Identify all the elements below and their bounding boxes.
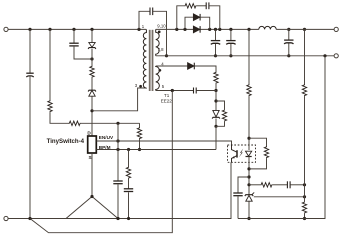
wire secondary bottom return	[238, 56, 325, 219]
transformer T1 primary winding	[143, 29, 146, 88]
wire bias diode to resistor	[194, 66, 216, 72]
resistor BP parallel	[222, 109, 226, 121]
resistor line-sense 2	[69, 121, 81, 125]
phase dot upper secondary	[158, 31, 161, 34]
node TL431 anode at return	[247, 217, 250, 220]
opto LED	[246, 151, 252, 156]
wire BP branch x118 lower	[117, 184, 119, 218]
phase dot bias winding	[159, 69, 162, 72]
wire output cap2 lower	[230, 44, 232, 56]
wire Y-cap left	[139, 11, 150, 29]
clamp TVS zener	[89, 43, 95, 48]
node return right tap	[323, 54, 326, 57]
node BP/M cap1 tap	[116, 148, 119, 151]
capacitor snubber	[205, 2, 207, 9]
node BP zener bottom	[214, 125, 217, 128]
wire bias resistor bottom	[215, 84, 217, 91]
output diode D2 (in line)	[193, 26, 199, 33]
wire bias pin5	[156, 90, 194, 92]
wire pin 3 to drain	[92, 88, 146, 111]
resistor opto parallel	[264, 146, 268, 158]
resistor snubber	[184, 4, 196, 8]
node comp at divider	[303, 183, 306, 186]
node Y-cap at secondary return	[165, 54, 168, 57]
capacitor compensation	[286, 181, 288, 188]
transformer core bars	[149, 30, 151, 91]
wire EN/UV	[97, 141, 232, 145]
svg-text:3: 3	[135, 83, 138, 88]
svg-text:5: 5	[162, 84, 165, 89]
node output cap1 bottom	[214, 54, 217, 57]
wire bulk cap branch lower	[29, 77, 31, 219]
wire soft cap branch	[238, 177, 249, 193]
wire TVS top lead	[91, 29, 93, 42]
wire sense to EN node	[81, 122, 140, 124]
wire source pin	[91, 153, 93, 197]
zener BP/M	[213, 110, 219, 117]
resistor clamp bleed	[90, 66, 94, 78]
resistor compensation	[260, 183, 272, 187]
capacitor BP x128	[124, 188, 133, 190]
node Y-cap primary tap	[137, 28, 140, 31]
wire post-filter cap	[288, 29, 290, 40]
shunt regulator TL431	[245, 195, 253, 196]
wire D1 loop left	[185, 17, 193, 29]
resistor divider lower	[302, 201, 306, 213]
wire divider middle	[304, 96, 306, 201]
wire snubber loop	[177, 6, 185, 30]
wire opto LED cathode chain	[248, 156, 250, 194]
wire post inductor	[276, 28, 334, 30]
wire bias cap right	[196, 90, 216, 92]
wire TL431 anode	[248, 201, 250, 218]
node opto feed top	[247, 28, 250, 31]
wire tent left diagonal	[66, 197, 92, 219]
svg-text:TinySwitch-4: TinySwitch-4	[47, 138, 85, 145]
wire bulk cap branch upper	[29, 29, 31, 73]
capacitor output C2	[226, 40, 235, 42]
wire line-sense upper	[49, 29, 51, 100]
node bias cap junction	[214, 89, 217, 92]
opto collector	[232, 145, 238, 152]
wire divider bottom	[304, 214, 306, 219]
resistor opto feed	[247, 84, 251, 96]
wire BP/M	[97, 149, 217, 151]
node BP zener top	[214, 99, 217, 102]
wire snubber mid	[197, 5, 206, 7]
capacitor post-filter C3	[284, 39, 293, 41]
svg-text:D: D	[87, 131, 91, 136]
input terminal J1 bottom	[4, 216, 8, 220]
wire opto parallel resistor loop top	[249, 138, 267, 146]
capacitor output C1	[211, 40, 220, 42]
wire secondary output rail	[156, 28, 259, 30]
wire bias return run	[30, 91, 172, 233]
svg-text:7,8: 7,8	[158, 47, 165, 52]
node bias return tap	[28, 217, 31, 220]
wire bias node down	[215, 91, 217, 111]
wire BP branch mid	[128, 179, 130, 189]
wire opto feed	[248, 29, 250, 84]
capacitor bulk input	[26, 72, 33, 74]
wire clamp resistor to diode	[91, 78, 93, 90]
node BP/M cap2 tap	[127, 148, 130, 151]
wire EN resistor to BP/M wire	[139, 139, 141, 149]
opto emitter	[232, 156, 238, 163]
wire comp RC mid	[273, 184, 288, 186]
node output cap 2 top	[229, 28, 232, 31]
capacitor clamp	[69, 42, 78, 44]
opto emitter arrow	[232, 156, 235, 158]
svg-text:9,10: 9,10	[157, 24, 166, 29]
node source tent peak	[90, 195, 93, 198]
wire bias pin4	[156, 65, 188, 67]
node output cap2 bottom	[229, 54, 232, 57]
wire post-filter cap lower	[288, 44, 290, 56]
transformer T1 upper secondary winding	[156, 29, 159, 55]
wire secondary return rail	[156, 55, 334, 57]
wire BP chain to BP/M pin wire	[215, 126, 217, 149]
node divider top	[303, 28, 306, 31]
node comp RC tap	[247, 183, 250, 186]
wire opto parallel resistor loop bottom	[249, 158, 267, 169]
bias rectifier diode	[188, 63, 194, 70]
wire Y-cap right	[153, 11, 167, 56]
capacitor feedback soft	[233, 192, 242, 194]
capacitor bias filter	[193, 88, 195, 94]
wire BP parallel resistor top	[216, 101, 225, 109]
wire comp RC right	[290, 184, 304, 186]
node clamp mid	[90, 57, 93, 60]
wire divider upper	[304, 29, 306, 84]
optocoupler U2 dashed box	[228, 145, 256, 162]
clamp blocking diode	[88, 90, 96, 91]
input terminal J1 top	[4, 27, 8, 31]
output diode D1 (parallel)	[193, 14, 199, 21]
svg-text:EN/UV: EN/UV	[99, 135, 114, 140]
node snubber right	[218, 28, 221, 31]
node D1 loop left	[183, 28, 186, 31]
capacitor Y1	[149, 8, 151, 16]
node ref at divider	[303, 195, 306, 198]
node soft-start cap tap	[247, 175, 250, 178]
wire BP branch x118	[117, 123, 119, 181]
wire BP zener bottom	[215, 119, 217, 127]
wire soft cap lower	[237, 196, 239, 218]
output terminal -	[334, 54, 338, 58]
node EN/UV at x118	[116, 139, 119, 142]
capacitor BP x118	[113, 180, 122, 182]
wire drain line	[91, 96, 93, 136]
wire TL431 ref	[254, 196, 305, 198]
node opto anode loop	[247, 137, 250, 140]
wire output cap2	[230, 29, 232, 40]
wire EN resistor drop	[139, 123, 141, 127]
resistor EN/UV feed	[137, 127, 141, 139]
node output cap 1 top	[214, 28, 217, 31]
wire clamp cap upper	[73, 29, 75, 43]
node bulk cap top	[28, 28, 31, 31]
resistor BP branch	[126, 167, 130, 179]
wire output cap1	[215, 29, 217, 40]
resistor line-sense 1	[48, 100, 52, 112]
op IC U1 TinySwitch-4 box	[88, 136, 97, 153]
wire output cap1 lower	[215, 44, 217, 56]
wire primary top rail	[8, 28, 146, 30]
output terminal +	[334, 27, 338, 31]
wire BP parallel resistor bottom	[216, 122, 225, 127]
node clamp cap top	[72, 28, 75, 31]
wire primary bottom rail	[8, 162, 231, 218]
phase dot primary pin 3	[139, 85, 142, 88]
node clamp TVS top	[90, 28, 93, 31]
node pin5 / return branch	[171, 89, 174, 92]
node drain / pin3 junction	[90, 109, 93, 112]
wire comp RC left	[249, 184, 260, 186]
svg-text:S: S	[88, 155, 91, 160]
node sense resistor top	[48, 28, 51, 31]
wire BP branch x128	[128, 150, 130, 167]
opto phototransistor bar	[236, 150, 238, 157]
wire line-sense corner	[50, 112, 69, 123]
transformer T1 bias winding	[156, 66, 160, 91]
wire D1 loop right	[200, 17, 209, 29]
wire BP branch x128 lower	[128, 192, 130, 218]
node snubber left	[175, 28, 178, 31]
wire clamp cap lower	[74, 47, 92, 59]
node D1 loop right	[208, 28, 211, 31]
wire snubber right	[209, 6, 220, 30]
node LED cathode loop	[247, 167, 250, 170]
resistor divider upper	[302, 84, 306, 96]
opto light bolt	[239, 149, 243, 158]
node sense/EN-UV tie	[116, 122, 119, 125]
wire opto feed lower	[248, 96, 250, 150]
inductor output filter	[259, 26, 276, 29]
node BP x128 at rail	[127, 217, 130, 220]
svg-text:1: 1	[142, 24, 145, 29]
resistor bias filter	[214, 72, 218, 84]
wire tent right diagonal	[92, 197, 118, 219]
node post-filter cap top	[287, 28, 290, 31]
svg-text:EE22: EE22	[161, 98, 173, 103]
wire TVS to resistor	[91, 49, 93, 66]
node post-filter cap bottom	[287, 54, 290, 57]
node EN resistor at BP/M	[138, 148, 141, 151]
node divider at return	[303, 217, 306, 220]
node BP x118 at rail	[116, 217, 119, 220]
